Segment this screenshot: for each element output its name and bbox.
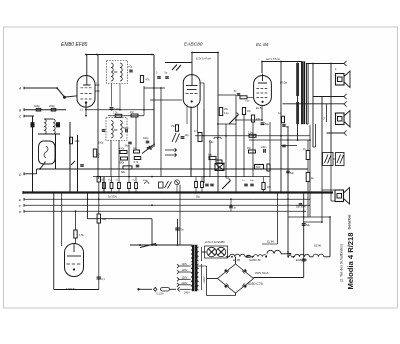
svg-text:240V: 240V <box>184 292 190 295</box>
svg-text:B: B <box>19 210 21 214</box>
svg-text:10M: 10M <box>75 140 80 143</box>
svg-text:470k: 470k <box>98 152 101 158</box>
svg-text:1,2k: 1,2k <box>113 111 118 114</box>
svg-text:1,5k: 1,5k <box>79 234 84 237</box>
svg-text:400p: 400p <box>143 180 149 182</box>
svg-text:6,3V 0,47mA: 6,3V 0,47mA <box>196 56 211 60</box>
svg-text:680k: 680k <box>119 162 125 165</box>
svg-text:10p: 10p <box>185 134 190 137</box>
svg-text:470: 470 <box>256 118 261 121</box>
svg-text:50µ: 50µ <box>265 123 270 126</box>
svg-text:220V: 220V <box>182 282 188 285</box>
svg-text:400p: 400p <box>34 104 40 108</box>
svg-text:100n: 100n <box>245 101 251 103</box>
svg-text:15n: 15n <box>247 147 252 150</box>
svg-text:50µ: 50µ <box>306 224 311 227</box>
svg-text:125V: 125V <box>182 269 188 272</box>
svg-text:260V,70mA: 260V,70mA <box>255 271 269 275</box>
svg-text:1µ 500V: 1µ 500V <box>108 195 117 198</box>
svg-text:3,3k: 3,3k <box>248 131 253 134</box>
svg-text:EF 85: EF 85 <box>233 258 241 262</box>
svg-text:0,1µ: 0,1µ <box>224 113 229 115</box>
svg-text:Melodia 4 R/218: Melodia 4 R/218 <box>346 233 355 290</box>
svg-text:Gerufon: Gerufon <box>348 214 352 229</box>
svg-text:1M: 1M <box>247 110 250 113</box>
svg-text:7: 7 <box>323 117 325 121</box>
svg-text:F: F <box>19 204 21 208</box>
svg-text:50µ: 50µ <box>196 195 201 198</box>
svg-text:B250 C75: B250 C75 <box>248 282 263 286</box>
svg-text:150V: 150V <box>182 277 188 280</box>
svg-text:470k: 470k <box>119 148 125 151</box>
svg-text:EABC80: EABC80 <box>184 42 203 48</box>
svg-text:1M: 1M <box>130 111 133 114</box>
svg-text:EABC 80: EABC 80 <box>250 258 262 262</box>
svg-text:100p: 100p <box>143 137 149 140</box>
svg-text:EZ 80: EZ 80 <box>314 244 322 248</box>
svg-text:EABC 80: EABC 80 <box>296 258 308 262</box>
svg-text:15n: 15n <box>171 125 176 128</box>
svg-text:560p: 560p <box>123 127 129 130</box>
svg-text:1M: 1M <box>226 178 229 180</box>
svg-text:2xTa 0,1A EM80: 2xTa 0,1A EM80 <box>205 240 225 244</box>
svg-text:+Cp: +Cp <box>128 67 133 69</box>
svg-text:200p: 200p <box>49 104 55 108</box>
svg-text:EL 84: EL 84 <box>256 42 269 48</box>
svg-text:110V: 110V <box>182 263 188 266</box>
svg-text:600: 600 <box>256 165 261 169</box>
svg-text:1w: 1w <box>278 113 281 115</box>
svg-text:~220V: ~220V <box>202 276 206 284</box>
svg-text:(2. Teil des Schaltbildes): (2. Teil des Schaltbildes) <box>339 244 343 282</box>
svg-text:50µ 350V: 50µ 350V <box>296 207 306 209</box>
svg-text:EM80 EF85: EM80 EF85 <box>61 42 88 48</box>
svg-text:80 Ωa: 80 Ωa <box>280 80 288 84</box>
svg-text:4,7k: 4,7k <box>134 161 139 164</box>
svg-text:EL 84: EL 84 <box>267 240 274 244</box>
svg-text:Ad 1,77mA: Ad 1,77mA <box>266 57 280 61</box>
svg-text:160p: 160p <box>98 142 104 145</box>
svg-text:0,1/2A: 0,1/2A <box>157 293 165 296</box>
svg-text:24p: 24p <box>125 145 130 148</box>
svg-text:240n: 240n <box>261 146 267 149</box>
